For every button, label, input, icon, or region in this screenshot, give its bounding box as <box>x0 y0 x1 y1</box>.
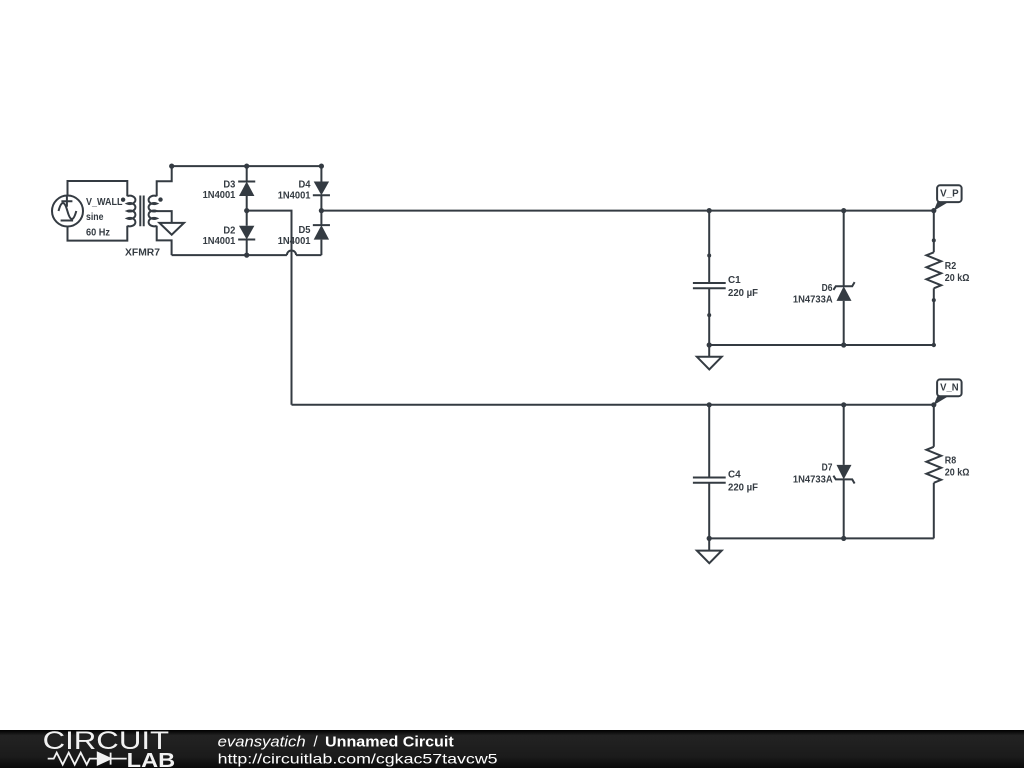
label C4 220 uF <box>728 469 759 494</box>
node V_N at R8 <box>931 402 936 407</box>
node bridge bottom <box>244 253 249 258</box>
capacitor C1 <box>693 211 726 345</box>
wire secondary center tap <box>157 211 172 223</box>
capacitor C4 <box>693 405 726 539</box>
ground lower <box>697 538 722 563</box>
label D3 1N4001 <box>203 179 236 202</box>
label R2 20 kOhm <box>945 260 970 284</box>
transformer XFMR7 primary winding <box>127 196 135 227</box>
zener diode D6 <box>833 211 854 345</box>
ground at transformer <box>159 223 184 235</box>
node top left <box>169 164 174 169</box>
wire source top to primary <box>68 181 128 196</box>
secondary polarity dot <box>158 197 162 201</box>
svg-text:20 kΩ: 20 kΩ <box>945 272 970 284</box>
transformer core <box>140 196 143 227</box>
wire source bottom to primary <box>68 226 128 241</box>
svg-text:LAB: LAB <box>127 749 176 768</box>
svg-text:R8: R8 <box>945 454 957 466</box>
voltage source V_WALL <box>52 196 83 227</box>
wire lower ground rail <box>709 537 934 539</box>
svg-text:20 kΩ: 20 kΩ <box>945 466 970 478</box>
label R8 20 kOhm <box>945 454 970 478</box>
label D5 1N4001 <box>278 224 311 247</box>
diode D5 <box>313 211 330 256</box>
svg-text:evansyatich: evansyatich <box>218 734 306 751</box>
svg-text:V_P: V_P <box>940 188 959 200</box>
node gnd rail at C1 <box>707 342 712 347</box>
diode D2 <box>238 211 255 256</box>
svg-text:1N4001: 1N4001 <box>203 189 236 201</box>
svg-text:1N4001: 1N4001 <box>278 190 311 202</box>
node V_N at D7 <box>841 402 846 407</box>
diode D4 <box>313 166 330 211</box>
svg-text:V_N: V_N <box>940 382 959 394</box>
node V_N at C4 <box>707 402 712 407</box>
svg-text:1N4733A: 1N4733A <box>793 294 833 306</box>
svg-text:1N4001: 1N4001 <box>203 235 236 247</box>
node bridge mid left <box>244 208 249 213</box>
primary polarity dot <box>121 198 125 202</box>
svg-text:C4: C4 <box>728 469 741 481</box>
node top right <box>319 164 324 169</box>
resistor R8 <box>926 405 941 539</box>
label D7 1N4733A <box>793 461 833 485</box>
wire secondary bottom to bridge <box>157 226 172 255</box>
wire bridge bottom rail with hop <box>172 254 322 256</box>
node lower gnd rail at C4 <box>707 536 712 541</box>
node V_P at C1 <box>707 208 712 213</box>
zener diode D7 <box>833 405 854 539</box>
wire top rail <box>172 165 322 167</box>
node lower gnd rail at D7 <box>841 536 846 541</box>
svg-text:220 µF: 220 µF <box>728 287 759 299</box>
svg-text:Unnamed Circuit: Unnamed Circuit <box>325 734 454 751</box>
wire V_N rail <box>292 404 934 406</box>
label D6 1N4733A <box>793 282 833 306</box>
diode D3 <box>238 166 255 211</box>
wire mid-left node down to V_N rail <box>247 211 292 405</box>
svg-text:http://circuitlab.com/cgkac57t: http://circuitlab.com/cgkac57tavcw5 <box>218 750 498 766</box>
logo resistor-diode art <box>48 753 127 765</box>
svg-text:D6: D6 <box>822 282 833 294</box>
node V_P at D6 <box>841 208 846 213</box>
node gnd rail at D6 <box>841 342 846 347</box>
ground upper <box>697 345 722 369</box>
svg-text:R2: R2 <box>945 260 957 272</box>
svg-text:1N4733A: 1N4733A <box>793 473 833 485</box>
net flag V_P <box>934 185 962 211</box>
node V_P at R2 <box>931 208 936 213</box>
svg-text:60 Hz: 60 Hz <box>86 227 110 239</box>
label C1 220 uF <box>728 274 759 299</box>
svg-text:XFMR7: XFMR7 <box>125 247 160 259</box>
label D2 1N4001 <box>203 225 236 248</box>
node bridge mid right <box>319 208 324 213</box>
node top middle <box>244 164 249 169</box>
wire secondary top to rail <box>157 166 172 196</box>
wire upper ground rail <box>709 344 934 346</box>
footer bar <box>0 730 1024 768</box>
label V_WALL sine 60 Hz <box>86 196 123 239</box>
svg-text:1N4001: 1N4001 <box>278 235 311 247</box>
footer title evansyatich / Unnamed Circuit <box>218 734 454 751</box>
wire hop arc <box>287 250 296 255</box>
net flag V_N <box>934 379 962 405</box>
svg-text:D7: D7 <box>822 461 833 473</box>
wire V_P rail <box>321 210 933 212</box>
svg-text:C1: C1 <box>728 274 741 286</box>
svg-text:V_WALL: V_WALL <box>86 196 123 208</box>
svg-text:sine: sine <box>86 211 104 223</box>
resistor R2 <box>926 211 941 345</box>
svg-text:220 µF: 220 µF <box>728 482 759 494</box>
node gnd rail at R2 <box>932 343 936 347</box>
transformer XFMR7 secondary winding <box>149 196 157 227</box>
label D4 1N4001 <box>278 179 311 202</box>
